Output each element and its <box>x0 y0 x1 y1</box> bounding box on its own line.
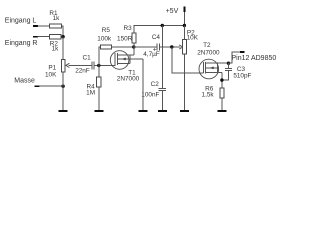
wire R4 to ground <box>98 87 100 110</box>
node D junction (drain) <box>132 45 135 48</box>
wire node B up to R5 <box>99 47 101 66</box>
wire P1 bottom to ground <box>62 72 64 111</box>
svg-text:150R: 150R <box>117 35 133 42</box>
potentiometer P1 <box>61 59 65 72</box>
+5V arrow tick <box>183 6 185 12</box>
wire C1 to T1 gate <box>94 65 115 67</box>
svg-text:2N7000: 2N7000 <box>197 49 220 56</box>
wire T1 drain up to node D <box>133 47 135 55</box>
ground P2 <box>180 110 189 112</box>
svg-text:510pF: 510pF <box>233 73 251 80</box>
wire output to Pin12 terminal <box>229 52 241 63</box>
svg-text:R5: R5 <box>102 27 111 34</box>
svg-text:Eingang L: Eingang L <box>5 17 37 24</box>
svg-text:10K: 10K <box>187 35 199 42</box>
resistor R1 <box>50 24 62 28</box>
resistor R2 <box>50 35 62 39</box>
wire T2 source down to R6 <box>221 72 223 88</box>
svg-text:P1: P1 <box>48 64 56 71</box>
terminal Eingang L <box>33 25 38 27</box>
capacitor C2 <box>159 87 167 89</box>
svg-text:C1: C1 <box>83 54 92 61</box>
wire C2 to ground <box>161 90 163 110</box>
wire R2 to node A <box>61 36 63 38</box>
wire C3 bottom to source node <box>222 70 229 80</box>
capacitor C1 <box>91 62 93 70</box>
wire Masse to P1 bottom <box>39 85 63 87</box>
svg-text:1M: 1M <box>86 90 95 97</box>
node B junction (C1/R4/R5/gate) <box>97 64 100 67</box>
resistor R3 <box>132 33 136 43</box>
wire R1 to node A <box>61 26 63 37</box>
P1 wiper arrow <box>68 65 91 67</box>
wire R6 to ground <box>221 98 223 110</box>
svg-text:1,5k: 1,5k <box>202 91 215 98</box>
P2 wiper arrow <box>179 45 183 49</box>
ground R6 <box>217 110 226 112</box>
capacitor C3 <box>228 63 230 68</box>
terminal Eingang R <box>33 36 38 38</box>
svg-text:10K: 10K <box>45 72 57 79</box>
wire P2 bottom to ground <box>183 54 185 111</box>
node A junction <box>61 35 64 38</box>
node F junction (T2 drain/output) <box>227 62 230 65</box>
wire C4 to P2 wiper <box>159 46 180 48</box>
capacitor C4 <box>156 44 158 51</box>
wire T1 source to ground <box>142 59 144 110</box>
svg-text:+5V: +5V <box>166 8 179 15</box>
resistor R6 <box>220 88 224 98</box>
wire rail down to C2 <box>161 26 163 89</box>
svg-text:C2: C2 <box>151 81 160 88</box>
wire P2 top to rail <box>183 26 185 40</box>
wire node A down to P1 <box>62 37 64 60</box>
transistor T2 <box>199 59 229 79</box>
svg-text:1k: 1k <box>52 46 60 53</box>
wire node B down to R4 <box>98 66 100 78</box>
junction rail/P2 <box>183 24 186 27</box>
potentiometer P2 <box>183 40 187 54</box>
junction P1 bottom <box>61 85 64 88</box>
wire drain node to C4 <box>134 46 157 48</box>
svg-text:C4: C4 <box>152 34 161 41</box>
svg-text:1k: 1k <box>53 15 61 22</box>
svg-text:Eingang R: Eingang R <box>5 40 38 47</box>
node G junction (source/R6/C3) <box>220 78 223 81</box>
terminal Pin12 AD9850 <box>240 51 244 53</box>
svg-text:22nF: 22nF <box>75 68 90 75</box>
resistor R4 <box>97 77 101 87</box>
wire R5 to drain node <box>112 46 134 48</box>
transistor T1 <box>110 51 143 70</box>
svg-text:R3: R3 <box>124 25 133 32</box>
terminal Masse <box>34 85 39 87</box>
svg-text:2N7000: 2N7000 <box>117 75 140 82</box>
wire Eingang L to R1 <box>38 25 50 27</box>
ground T1 <box>138 110 147 112</box>
svg-text:Masse: Masse <box>14 78 35 85</box>
ground C2 <box>158 110 167 112</box>
svg-text:100nF: 100nF <box>141 91 159 98</box>
wire node E to T2 gate <box>172 47 204 73</box>
svg-text:Pin12 AD9850: Pin12 AD9850 <box>232 55 277 62</box>
node E junction (C4/P2/T2 gate) <box>170 45 173 48</box>
svg-text:T2: T2 <box>203 42 211 49</box>
wire Eingang R to R2 <box>38 36 50 38</box>
junction rail/C2 <box>161 24 164 27</box>
wire R3 to rail <box>134 26 185 33</box>
wire R3 top to +5V rail <box>133 43 135 47</box>
resistor R5 <box>100 45 111 49</box>
svg-text:4,7µF: 4,7µF <box>143 51 160 58</box>
ground P1 <box>59 110 68 112</box>
svg-text:100k: 100k <box>97 35 112 42</box>
ground R4 <box>94 110 103 112</box>
